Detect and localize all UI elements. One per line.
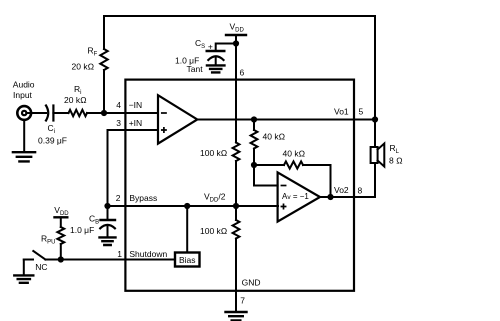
junction bias tap — [184, 203, 190, 209]
wire 40k horizontal to output node — [303, 165, 331, 197]
wire Ri to node -IN — [87, 112, 104, 114]
wire right feedback vertical x=375 — [374, 16, 376, 120]
wire Rf branch lower x=104 — [103, 70, 105, 113]
wire Rf branch upper x=104 — [103, 16, 105, 49]
wire bypass/VDD2 run y=206 — [108, 205, 279, 207]
svg-text:5: 5 — [359, 106, 364, 116]
wire Vo1 output run y=119.5 — [197, 119, 375, 121]
ground at CS — [207, 65, 225, 72]
svg-text:2: 2 — [116, 193, 121, 203]
junction shutdown/RPU — [58, 256, 64, 262]
wire CB branch — [107, 206, 109, 220]
op-amp U1A triangle — [158, 95, 197, 143]
svg-text:1: 1 — [117, 249, 122, 259]
ground at pin7 — [226, 312, 247, 320]
svg-text:NC: NC — [35, 262, 47, 272]
op-amp U1B plus symbol — [281, 204, 285, 208]
wire Ci to Ri — [53, 112, 68, 114]
junction Vo2 output — [327, 194, 333, 200]
switch S1 arm — [33, 251, 45, 260]
audio input jack J1 outer ring — [17, 106, 31, 120]
ground at switch — [14, 275, 33, 282]
wire RPU bottom stub — [60, 244, 62, 260]
capacitor CB straight plate — [101, 219, 116, 221]
capacitor CS curved plate — [208, 56, 223, 60]
wire GND pin7 drop — [235, 291, 237, 312]
svg-text:40 kΩ: 40 kΩ — [283, 149, 306, 159]
wire VDD pin6 upper x=236 — [235, 35, 237, 143]
svg-text:3: 3 — [116, 118, 121, 128]
switch S1 fixed contact stub — [24, 259, 33, 261]
svg-text:8 Ω: 8 Ω — [389, 156, 403, 166]
op-amp U1A plus symbol — [162, 128, 166, 132]
capacitor CB curved plate — [100, 225, 115, 228]
svg-text:Bypass: Bypass — [129, 193, 157, 203]
VDD supply bar — [226, 34, 246, 36]
svg-text:100 kΩ: 100 kΩ — [200, 226, 228, 236]
resistor 100k lower — [233, 220, 240, 239]
resistor 40k horizontal — [284, 161, 303, 168]
wire shutdown run y=259.5 — [45, 259, 175, 261]
resistor Ri 20k — [69, 110, 88, 116]
wire CB to ground — [107, 227, 109, 238]
svg-text:Input: Input — [13, 90, 33, 100]
op-amp U1B triangle — [278, 172, 320, 221]
op-amp U1B minus symbol — [281, 185, 285, 187]
capacitor CS straight plate — [207, 50, 225, 52]
wire feedback node to 40k horizontal — [254, 164, 284, 166]
svg-text:40 kΩ: 40 kΩ — [263, 132, 286, 142]
svg-text:Av = −1: Av = −1 — [282, 192, 309, 201]
svg-text:1.0 μF: 1.0 μF — [70, 225, 94, 235]
wire top feedback run y=16 — [104, 15, 375, 17]
resistor RPU pullup — [57, 227, 64, 244]
resistor RF 20k — [100, 49, 107, 70]
resistor 40k vertical — [251, 130, 258, 149]
wire bias tap vertical — [186, 206, 188, 253]
IC boundary box U1 — [125, 80, 354, 291]
wire 40k bottom stub — [253, 149, 255, 166]
wire input run jack to Ci — [27, 112, 47, 114]
wire switch ground drop — [23, 260, 25, 276]
svg-text:8: 8 — [358, 185, 363, 195]
wire +IN pin3 — [108, 129, 159, 131]
svg-text:Tant: Tant — [187, 64, 204, 74]
speaker RL body — [371, 147, 378, 163]
svg-text:4: 4 — [116, 100, 121, 110]
wire pin6 line middle — [235, 161, 237, 220]
wire speaker branch lower — [374, 163, 376, 197]
VDD supply bar at RPU — [55, 216, 68, 218]
svg-text:7: 7 — [240, 295, 245, 305]
svg-text:GND: GND — [242, 278, 261, 288]
ground at CB — [100, 237, 116, 245]
bias block outline — [175, 253, 200, 267]
ground at jack — [13, 152, 35, 161]
wire -IN pin4 — [104, 112, 158, 114]
junction node VDD/CS — [233, 40, 239, 46]
svg-text:6: 6 — [240, 68, 245, 78]
svg-text:20 kΩ: 20 kΩ — [64, 95, 87, 105]
audio input jack J1 center pin — [22, 111, 26, 115]
wire to U1B inverting input — [254, 165, 278, 186]
resistor 100k upper — [233, 143, 240, 162]
svg-text:Vo1: Vo1 — [334, 106, 349, 116]
wire RPU top stub — [60, 217, 62, 227]
wire CS branch — [216, 44, 236, 51]
wire Vo2 output run y=197 — [320, 196, 375, 198]
svg-text:+IN: +IN — [129, 118, 142, 128]
junction Vo1 to 40k — [251, 116, 257, 122]
capacitor Ci straight plate — [52, 106, 54, 121]
svg-text:Shutdown: Shutdown — [129, 249, 167, 259]
wire +IN branch down to bypass node — [107, 130, 109, 206]
capacitor Ci 0.39uF curved plate — [46, 106, 48, 121]
svg-text:0.39 μF: 0.39 μF — [38, 136, 67, 146]
wire pin6 line bottom to GND edge — [235, 239, 237, 291]
wire speaker branch upper — [374, 120, 376, 148]
speaker RL cone — [378, 144, 385, 167]
wire CS to ground — [215, 58, 217, 65]
svg-text:100 kΩ: 100 kΩ — [200, 148, 228, 158]
svg-text:Vo2: Vo2 — [334, 185, 349, 195]
junction 40k/40k feedback — [251, 162, 257, 168]
junction node bypass/+IN/CB — [104, 203, 110, 209]
svg-text:Audio: Audio — [13, 80, 35, 90]
wire jack ground drop — [23, 120, 25, 152]
svg-text:Bias: Bias — [179, 255, 196, 265]
junction node VDD/2 — [233, 203, 239, 209]
wire 40k top stub — [253, 120, 255, 131]
junction node -IN/Rf/Ri — [101, 110, 107, 116]
junction Vo1/RL/feedback — [372, 116, 378, 122]
svg-text:−IN: −IN — [129, 100, 142, 110]
svg-text:20 kΩ: 20 kΩ — [72, 62, 95, 72]
svg-text:+: + — [208, 41, 213, 51]
op-amp U1A minus symbol — [162, 112, 166, 114]
